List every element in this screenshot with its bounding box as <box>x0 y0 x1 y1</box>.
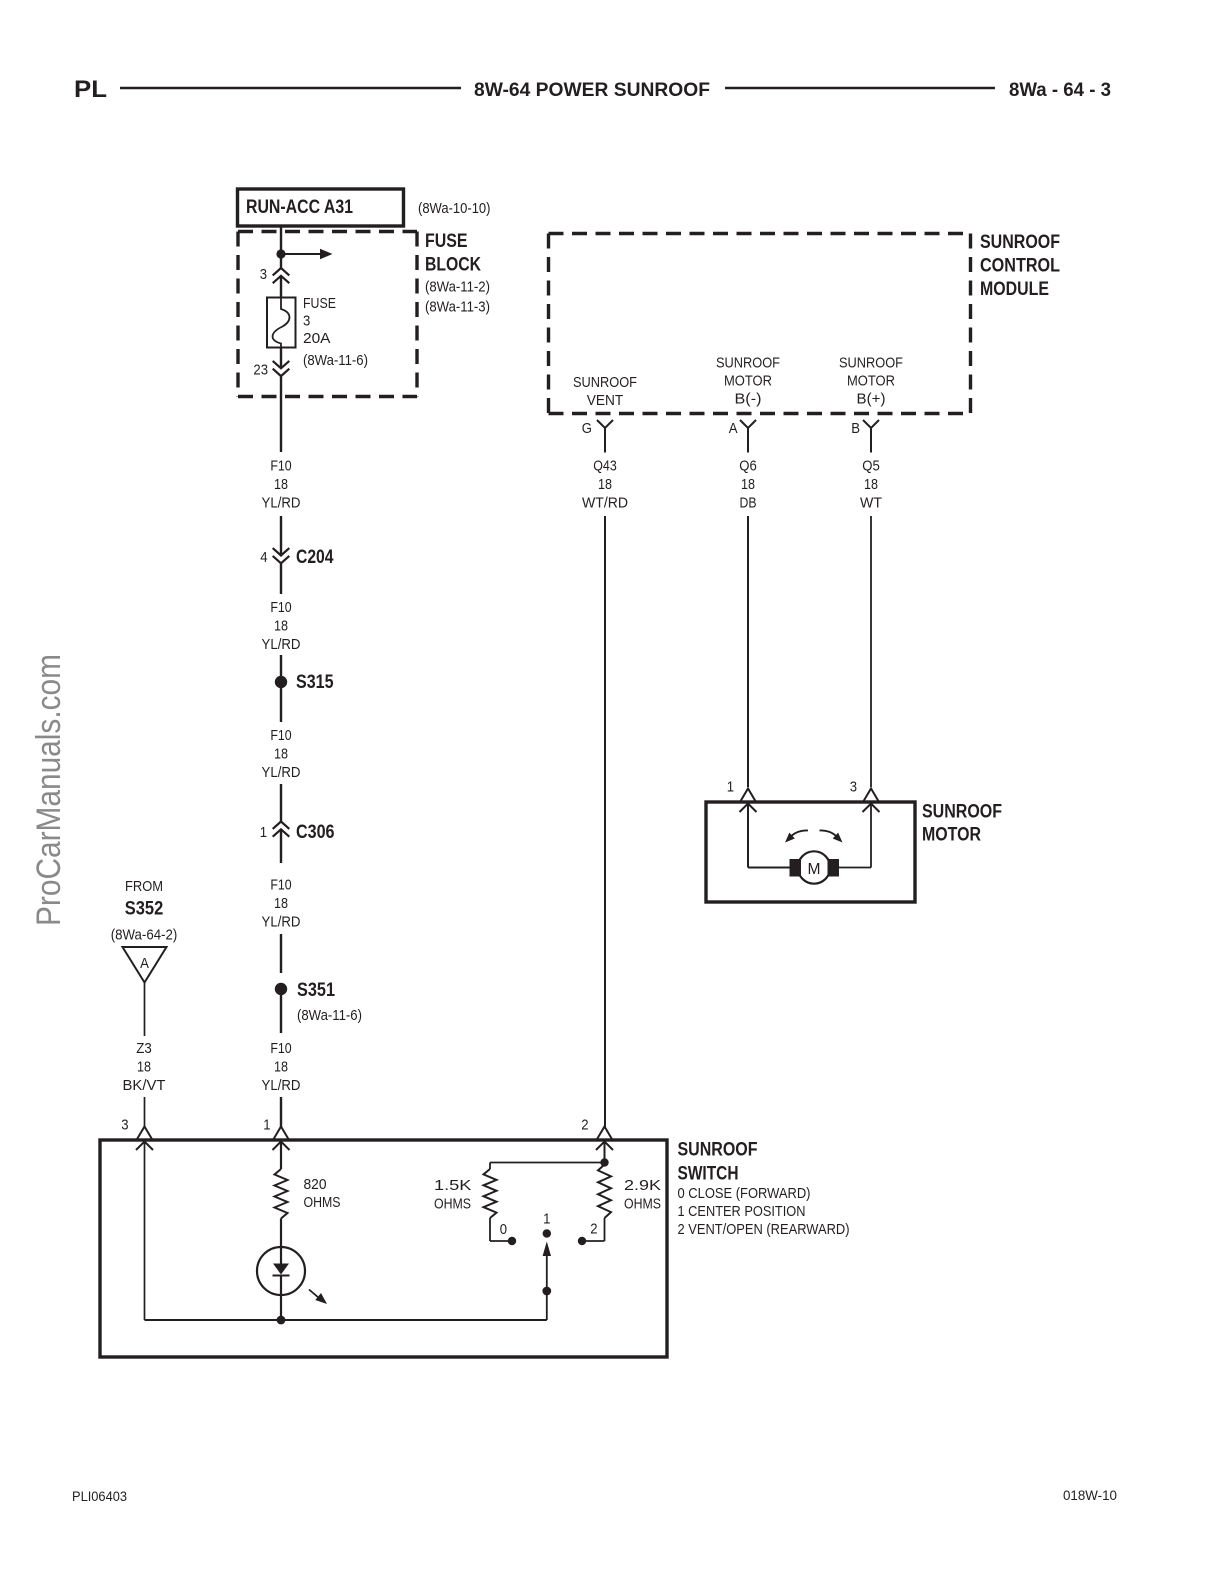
svg-text:2: 2 <box>581 1117 588 1134</box>
svg-text:SUNROOF: SUNROOF <box>716 355 780 372</box>
module output SUNROOF MOTOR B(-) <box>716 355 780 408</box>
motor pin 3 <box>850 779 880 813</box>
svg-text:SUNROOF: SUNROOF <box>573 374 637 391</box>
motor internal wiring <box>748 803 871 868</box>
svg-text:M: M <box>808 861 821 878</box>
svg-text:F10: F10 <box>270 1040 291 1057</box>
svg-text:FROM: FROM <box>125 878 163 895</box>
svg-text:RUN-ACC A31: RUN-ACC A31 <box>246 197 353 218</box>
svg-text:4: 4 <box>260 549 267 566</box>
svg-text:SWITCH: SWITCH <box>678 1164 739 1185</box>
wire label Q6 18 DB <box>739 458 757 512</box>
resistor 820 ohms <box>275 1143 341 1219</box>
connector C306 pin 1 <box>260 822 335 844</box>
splice S351 <box>275 980 362 1024</box>
module output SUNROOF MOTOR B(+) <box>839 355 903 408</box>
svg-text:MOTOR: MOTOR <box>724 373 772 390</box>
svg-text:(8Wa-11-3): (8Wa-11-3) <box>425 299 490 316</box>
svg-text:A: A <box>729 420 738 437</box>
wire label Q5 18 WT <box>860 458 882 512</box>
wire F10 out of fuse block <box>280 376 282 452</box>
wire label F10 18 YL/RD (1) <box>262 458 301 512</box>
svg-text:F10: F10 <box>270 727 291 744</box>
svg-text:Z3: Z3 <box>136 1040 152 1057</box>
svg-text:F10: F10 <box>270 877 291 894</box>
sunroof motor box <box>706 802 915 902</box>
fuse block pin 3 connector <box>260 266 290 283</box>
header rule right <box>725 87 995 90</box>
svg-text:G: G <box>582 420 592 437</box>
wire <box>280 688 282 722</box>
svg-text:WT/RD: WT/RD <box>582 495 628 512</box>
svg-text:18: 18 <box>598 476 612 493</box>
wire from triangle <box>144 983 146 1037</box>
svg-text:(8Wa-11-6): (8Wa-11-6) <box>303 352 368 369</box>
svg-text:SUNROOF: SUNROOF <box>678 1140 758 1161</box>
svg-text:8W-64 POWER SUNROOF: 8W-64 POWER SUNROOF <box>474 80 710 101</box>
wire <box>280 563 282 594</box>
svg-text:PLI06403: PLI06403 <box>72 1488 127 1504</box>
svg-text:2 VENT/OPEN (REARWARD): 2 VENT/OPEN (REARWARD) <box>678 1221 850 1238</box>
off-page triangle A <box>123 947 167 983</box>
svg-text:3: 3 <box>260 266 267 283</box>
sunroof switch box <box>100 1140 667 1357</box>
svg-text:820: 820 <box>304 1176 327 1193</box>
svg-text:(8Wa-64-2): (8Wa-64-2) <box>111 927 178 944</box>
svg-text:3: 3 <box>121 1117 128 1134</box>
footer: sheet 018W-10 <box>1063 1487 1117 1503</box>
svg-text:YL/RD: YL/RD <box>262 495 301 512</box>
svg-text:(8Wa-10-10): (8Wa-10-10) <box>418 200 491 217</box>
svg-text:018W-10: 018W-10 <box>1063 1487 1117 1503</box>
wire wiper to bus <box>546 1293 548 1320</box>
module pin A <box>729 420 756 453</box>
svg-text:2.9K: 2.9K <box>624 1177 661 1194</box>
svg-text:1: 1 <box>543 1211 550 1228</box>
svg-text:18: 18 <box>274 476 288 493</box>
switch pin 2 connector <box>581 1117 613 1151</box>
svg-text:SUNROOF: SUNROOF <box>980 232 1060 253</box>
svg-text:YL/RD: YL/RD <box>262 636 301 653</box>
svg-text:Q6: Q6 <box>739 458 757 475</box>
wire <box>280 784 282 822</box>
svg-text:B(+): B(+) <box>857 391 886 408</box>
switch title and legend <box>678 1140 850 1239</box>
svg-text:PL: PL <box>74 76 107 103</box>
svg-text:20A: 20A <box>303 330 331 347</box>
svg-text:B(-): B(-) <box>735 391 762 408</box>
wiper arrow <box>542 1242 551 1296</box>
resistor 2.9K ohms <box>598 1165 661 1219</box>
svg-text:18: 18 <box>864 476 878 493</box>
wire label Z3 18 BK/VT <box>123 1040 166 1094</box>
svg-text:DB: DB <box>740 495 757 512</box>
connector C204 pin 4 <box>260 547 334 568</box>
switch pin 1 connector <box>263 1117 289 1151</box>
header: title 8W-64 POWER SUNROOF <box>474 80 710 101</box>
wire <box>280 995 282 1033</box>
svg-text:F10: F10 <box>270 458 291 475</box>
svg-text:18: 18 <box>274 618 288 635</box>
sunroof control module (dashed outline) <box>549 234 971 414</box>
svg-text:VENT: VENT <box>587 392 624 409</box>
wire Q5 <box>870 516 872 787</box>
svg-text:YL/RD: YL/RD <box>262 1077 301 1094</box>
header: page number 8Wa - 64 - 3 <box>1009 80 1111 101</box>
contact 0 <box>500 1221 517 1245</box>
svg-text:1.5K: 1.5K <box>434 1177 471 1194</box>
wire label F10 18 YL/RD (5) <box>262 1040 301 1094</box>
svg-text:OHMS: OHMS <box>434 1196 471 1213</box>
svg-text:3: 3 <box>303 313 310 330</box>
svg-text:18: 18 <box>274 1059 288 1076</box>
svg-text:S315: S315 <box>296 672 334 693</box>
wire Q6 <box>747 516 749 787</box>
module output SUNROOF VENT <box>573 374 637 409</box>
wire RUN-ACC to fuse <box>280 226 282 268</box>
from S352 label <box>111 878 178 944</box>
motor pin 1 <box>727 779 757 813</box>
switch pin 3 internal wire <box>144 1143 146 1320</box>
svg-text:S352: S352 <box>125 899 164 920</box>
motor M1 <box>790 851 840 883</box>
svg-text:18: 18 <box>137 1059 151 1076</box>
wire <box>280 1097 282 1127</box>
svg-text:MOTOR: MOTOR <box>847 373 895 390</box>
svg-text:WT: WT <box>860 495 882 512</box>
reference (8Wa-10-10) <box>418 200 491 217</box>
wire <box>280 655 282 676</box>
module pin B <box>851 420 879 453</box>
resistor 1.5K ohms <box>434 1169 497 1218</box>
svg-text:ProCarManuals.com: ProCarManuals.com <box>30 654 68 926</box>
footer: drawing id PLI06403 <box>72 1488 127 1504</box>
svg-text:C306: C306 <box>296 822 335 843</box>
svg-text:18: 18 <box>274 895 288 912</box>
wire pin3 to fuse <box>280 276 282 298</box>
module pin G <box>582 420 613 453</box>
watermark ProCarManuals.com <box>30 654 68 926</box>
svg-text:YL/RD: YL/RD <box>262 914 301 931</box>
svg-text:Q5: Q5 <box>862 458 880 475</box>
header rule left <box>120 87 461 90</box>
fuse 3 20A <box>267 298 296 348</box>
splice S315 <box>275 672 334 693</box>
wire pin2 to junction <box>600 1143 608 1167</box>
svg-text:F10: F10 <box>270 599 291 616</box>
svg-text:FUSE: FUSE <box>303 295 336 312</box>
bottom bus wire <box>145 1316 547 1325</box>
svg-text:A: A <box>140 955 149 972</box>
svg-text:1: 1 <box>260 824 267 841</box>
svg-text:BLOCK: BLOCK <box>425 255 481 276</box>
svg-text:OHMS: OHMS <box>624 1196 661 1213</box>
fuse block (dashed outline) <box>238 232 417 397</box>
svg-text:0: 0 <box>500 1221 507 1238</box>
svg-text:SUNROOF: SUNROOF <box>839 355 903 372</box>
LED indicator lamp <box>257 1247 327 1320</box>
svg-text:YL/RD: YL/RD <box>262 764 301 781</box>
svg-text:SUNROOF: SUNROOF <box>922 802 1002 823</box>
hot-feed box RUN-ACC A31 <box>238 189 404 226</box>
svg-text:Q43: Q43 <box>593 458 617 475</box>
svg-text:BK/VT: BK/VT <box>123 1077 166 1094</box>
fuse block pin 23 connector <box>253 348 289 379</box>
fuse block title <box>425 231 490 316</box>
wire 1.5k to contact 0 <box>490 1218 508 1241</box>
wire <box>280 516 282 556</box>
svg-text:MODULE: MODULE <box>980 279 1049 300</box>
svg-text:18: 18 <box>741 476 755 493</box>
svg-text:C204: C204 <box>296 547 334 568</box>
wire Q43 (vent) long run <box>604 516 606 1127</box>
wire label F10 18 YL/RD (3) <box>262 727 301 781</box>
svg-text:MOTOR: MOTOR <box>922 825 981 846</box>
svg-text:B: B <box>851 420 860 437</box>
wire junction to 1.5k <box>490 1163 605 1170</box>
contact 1 <box>543 1211 551 1238</box>
contact 2 <box>578 1221 598 1246</box>
svg-text:1 CENTER POSITION: 1 CENTER POSITION <box>678 1203 806 1220</box>
svg-text:0 CLOSE (FORWARD): 0 CLOSE (FORWARD) <box>678 1185 811 1202</box>
module title <box>980 232 1060 300</box>
wire label F10 18 YL/RD (2) <box>262 599 301 653</box>
svg-text:1: 1 <box>263 1117 270 1134</box>
junction node with feed arrow <box>276 249 332 260</box>
wire <box>280 934 282 973</box>
rotation arrows <box>785 830 843 842</box>
motor box title <box>922 802 1002 846</box>
wire <box>144 1097 146 1127</box>
svg-text:18: 18 <box>274 746 288 763</box>
wire label Q43 18 WT/RD <box>582 458 628 512</box>
switch pin 3 connector <box>121 1117 153 1151</box>
svg-text:OHMS: OHMS <box>304 1194 341 1211</box>
wire <box>280 829 282 863</box>
svg-text:3: 3 <box>850 779 857 796</box>
wire 2.9k to contact 2 <box>586 1218 605 1241</box>
svg-text:2: 2 <box>590 1221 597 1238</box>
fuse value label <box>303 295 368 369</box>
svg-text:(8Wa-11-2): (8Wa-11-2) <box>425 279 490 296</box>
svg-text:1: 1 <box>727 779 734 796</box>
svg-text:23: 23 <box>253 362 268 379</box>
svg-text:S351: S351 <box>297 980 335 1001</box>
svg-text:CONTROL: CONTROL <box>980 256 1060 277</box>
svg-text:FUSE: FUSE <box>425 231 468 252</box>
wire label F10 18 YL/RD (4) <box>262 877 301 931</box>
header: page code PL <box>74 76 107 103</box>
svg-text:8Wa - 64 - 3: 8Wa - 64 - 3 <box>1009 80 1111 101</box>
svg-text:(8Wa-11-6): (8Wa-11-6) <box>297 1007 362 1024</box>
wire 820 to LED <box>280 1219 282 1248</box>
